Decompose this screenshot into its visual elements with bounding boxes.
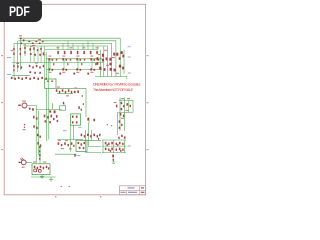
PDF badge bbox=[0, 0, 42, 22]
resistor R28 bbox=[37, 78, 39, 80]
resistor R25 bbox=[25, 77, 27, 79]
wire V- bus bbox=[18, 41, 116, 77]
transistor Q5 bbox=[87, 73, 89, 75]
resistor R98 bbox=[57, 120, 58, 122]
relay K2 coil bbox=[60, 106, 66, 110]
resistor R49 bbox=[66, 69, 68, 71]
wire rail M1 bbox=[46, 88, 48, 141]
transistor Q7 bbox=[77, 90, 79, 93]
resistor R146c bbox=[110, 150, 111, 152]
wire br v3 bbox=[123, 140, 125, 153]
resistor R61 bbox=[113, 53, 115, 56]
resistor R99 bbox=[63, 102, 64, 104]
capacitor C8 bbox=[29, 71, 31, 73]
resistor R8 bbox=[20, 48, 21, 51]
resistor R131 bbox=[116, 143, 117, 145]
resistor R95 bbox=[45, 120, 47, 122]
wire mid rail bbox=[12, 62, 104, 64]
resistor R137 bbox=[116, 148, 117, 150]
diode D6 bbox=[84, 142, 86, 144]
resistor R126 bbox=[124, 136, 125, 139]
wire gnd row bbox=[55, 153, 77, 155]
diode D2 bbox=[30, 53, 32, 55]
resistor R146 bbox=[40, 166, 42, 168]
rectifier U2 bbox=[76, 140, 87, 151]
wire row join bbox=[45, 52, 47, 79]
capacitor C3 bbox=[20, 53, 21, 55]
resistor R14 bbox=[13, 65, 14, 68]
resistor R109 bbox=[123, 105, 124, 107]
resistor R103 bbox=[76, 121, 78, 123]
title rev bbox=[141, 187, 144, 188]
capacitor C18 bbox=[113, 159, 114, 161]
resistor R2 bbox=[32, 43, 34, 45]
resistor R40 bbox=[62, 58, 64, 60]
resistor R69 bbox=[114, 69, 116, 72]
resistor R11 bbox=[37, 49, 39, 51]
resistor R118 bbox=[116, 105, 117, 108]
ground GND3 bbox=[49, 177, 53, 181]
capacitor C14 bbox=[24, 124, 25, 125]
capacitor C12 bbox=[84, 59, 85, 61]
junction dot E bbox=[69, 186, 70, 187]
transistor Q13 bbox=[90, 135, 91, 137]
resistor R53 bbox=[94, 69, 96, 71]
resistor R68 bbox=[110, 68, 112, 71]
resistor R121 bbox=[64, 142, 66, 145]
resistor R41 bbox=[66, 59, 68, 61]
wire mr rail 2 bbox=[123, 98, 125, 132]
resistor R88 bbox=[39, 136, 40, 138]
resistor R80 bbox=[83, 103, 84, 105]
resistor R38 bbox=[48, 58, 50, 60]
wire bl bottom bbox=[31, 176, 56, 178]
diode D8 bbox=[83, 147, 85, 149]
svg-text:The Adventure NOT FOR SALE: The Adventure NOT FOR SALE bbox=[93, 88, 134, 92]
wire bl rail bbox=[39, 145, 41, 164]
resistor R138 bbox=[119, 148, 121, 151]
net LS label bbox=[127, 145, 130, 148]
resistor R74 bbox=[59, 91, 60, 93]
resistor R29 bbox=[41, 77, 43, 79]
transistor Q6 bbox=[74, 91, 76, 93]
net AC label bbox=[76, 154, 80, 157]
wire rail L1 bbox=[35, 109, 37, 163]
capacitor C4 bbox=[24, 51, 25, 53]
relay K1 bbox=[45, 79, 57, 88]
resistor R101 bbox=[76, 116, 78, 118]
resistor R13 bbox=[43, 52, 44, 54]
resistor R111 bbox=[127, 103, 129, 106]
transistor Q8 bbox=[87, 118, 89, 121]
title date bbox=[121, 192, 126, 193]
resistor R4 bbox=[39, 43, 41, 45]
wire corner drop bbox=[88, 117, 90, 123]
capacitor C29 bbox=[95, 63, 96, 65]
resistor R27 bbox=[33, 77, 35, 79]
wire br top bbox=[102, 139, 126, 141]
wire br mid bbox=[102, 145, 126, 147]
resistor R21 bbox=[11, 77, 13, 79]
value labels bottom-left bbox=[33, 161, 36, 164]
resistor R45 bbox=[94, 59, 96, 61]
resistor R50 bbox=[76, 68, 78, 70]
wire out row bbox=[80, 139, 101, 141]
resistor R147 bbox=[43, 167, 44, 170]
wire X1 out bbox=[27, 106, 61, 110]
resistor R3 bbox=[35, 41, 37, 42]
resistor R86 bbox=[36, 127, 37, 129]
resistor R54 bbox=[96, 57, 98, 60]
capacitor C28 bbox=[81, 63, 82, 65]
resistor R85 bbox=[33, 125, 35, 127]
junction dot A bbox=[107, 124, 108, 125]
junction dot B bbox=[111, 125, 112, 126]
resistor R20 bbox=[39, 72, 41, 74]
resistor R145 bbox=[37, 167, 38, 170]
resistor R84 bbox=[36, 117, 37, 119]
junction dot D bbox=[61, 186, 62, 187]
resistor R7 bbox=[13, 52, 14, 55]
polarized cap C16 bbox=[74, 154, 75, 157]
wire row B bbox=[46, 58, 102, 60]
resistor R22 bbox=[14, 78, 16, 80]
resistor R124 bbox=[73, 145, 74, 147]
resistor R71 bbox=[122, 67, 124, 70]
wire mr mid bbox=[118, 112, 133, 135]
resistor R46 bbox=[48, 68, 50, 70]
title sheet bbox=[128, 192, 137, 193]
resistor R106 bbox=[78, 106, 80, 109]
capacitor C1 bbox=[20, 38, 22, 40]
resistor R16 bbox=[17, 65, 18, 67]
resistor R15 bbox=[13, 69, 14, 71]
resistor R129 bbox=[108, 143, 109, 145]
net OUT label bbox=[128, 72, 131, 75]
wire cluster verticals bbox=[25, 46, 44, 79]
resistor R141 bbox=[39, 150, 40, 152]
value labels right cluster bbox=[104, 49, 107, 52]
resistor R48 bbox=[62, 68, 64, 70]
capacitor C5 bbox=[34, 54, 36, 56]
resistor R56 bbox=[102, 54, 104, 57]
wire input rail bbox=[12, 75, 30, 77]
transistor Q17 bbox=[34, 169, 37, 172]
wire interrow drops bbox=[50, 59, 92, 70]
resistor R146b bbox=[117, 144, 118, 146]
resistor R130 bbox=[111, 142, 113, 145]
net VP label bbox=[128, 45, 131, 48]
wire GND bus bbox=[14, 43, 112, 79]
resistor R144 bbox=[34, 166, 36, 168]
resistor R17 bbox=[32, 66, 33, 68]
resistor R113 bbox=[120, 113, 122, 115]
resistor R75 bbox=[62, 89, 64, 92]
resistor R107 bbox=[81, 109, 82, 111]
wire br v1 bbox=[102, 140, 104, 153]
resistor R91 bbox=[44, 115, 46, 118]
resistor R30 bbox=[45, 78, 47, 80]
resistor R94 bbox=[53, 118, 54, 120]
net VREF label bbox=[78, 126, 81, 129]
resistor R60 bbox=[109, 63, 111, 66]
resistor R142 bbox=[39, 154, 41, 157]
resistor R72 bbox=[47, 81, 49, 82]
capacitor C6 bbox=[39, 54, 41, 56]
resistor R135 bbox=[108, 148, 109, 150]
wire LED out bbox=[26, 161, 32, 163]
wire bias bus bbox=[24, 46, 107, 77]
resistor R100 bbox=[72, 116, 74, 118]
wire mr rail 1 bbox=[119, 98, 121, 132]
transistor Q3 bbox=[59, 73, 61, 75]
resistor R87 bbox=[37, 134, 39, 137]
svg-text:DREAMBO by : Mr.Virinho Gonzal: DREAMBO by : Mr.Virinho Gonzalez bbox=[93, 82, 141, 86]
resistor R89 bbox=[37, 142, 39, 144]
wire rail C bbox=[123, 50, 125, 74]
resistor R18 bbox=[36, 65, 38, 67]
capacitor C7 bbox=[21, 66, 22, 68]
resistor R51 bbox=[80, 69, 82, 71]
resistor R77 bbox=[68, 89, 70, 92]
resistor R63 bbox=[119, 57, 121, 60]
wire K2 stub bbox=[63, 103, 65, 106]
capacitor C15 bbox=[24, 127, 25, 128]
wire nest 2 bbox=[89, 123, 101, 147]
capacitor C11 bbox=[70, 59, 71, 61]
resistor R10 bbox=[33, 47, 34, 50]
net IN label bbox=[7, 56, 11, 59]
resistor R64 bbox=[121, 51, 123, 54]
resistor R34 bbox=[77, 51, 79, 54]
resistor R133 bbox=[122, 143, 123, 145]
resistor R43 bbox=[80, 59, 82, 61]
resistor R115 bbox=[119, 120, 121, 123]
value labels center cluster bbox=[57, 86, 60, 89]
resistor R143 bbox=[39, 158, 40, 160]
title doc name bbox=[128, 187, 135, 188]
resistor R127 bbox=[118, 137, 119, 139]
capacitor C17 bbox=[112, 155, 114, 158]
wire left tap 1 bbox=[17, 41, 19, 72]
resistor R112 bbox=[130, 105, 131, 107]
capacitor C2 bbox=[23, 39, 25, 41]
resistor R35 bbox=[83, 51, 85, 54]
resistor R36 bbox=[90, 51, 92, 54]
capacitor C10 bbox=[56, 59, 57, 61]
resistor R42 bbox=[76, 58, 78, 60]
resistor R31 bbox=[57, 51, 59, 54]
wire U2 feeds bbox=[70, 125, 73, 151]
resistor R23 bbox=[18, 77, 20, 79]
resistor R81 bbox=[29, 108, 31, 110]
resistor R76 bbox=[65, 91, 66, 93]
wire rail M2 bbox=[48, 60, 50, 139]
resistor R79 bbox=[82, 95, 83, 97]
wire rail B bbox=[99, 50, 101, 77]
wire row C bbox=[46, 69, 102, 71]
resistor R47 bbox=[52, 69, 54, 71]
resistor R78 bbox=[71, 91, 72, 93]
resistor R110 bbox=[121, 108, 123, 110]
resistor R132 bbox=[119, 142, 121, 145]
resistor R98 bbox=[54, 110, 56, 113]
wire nest 3 bbox=[90, 130, 92, 140]
resistor R125 bbox=[121, 135, 123, 137]
resistor R57 bbox=[102, 59, 104, 62]
resistor R9 bbox=[24, 47, 25, 49]
wire stub c1 bbox=[52, 103, 54, 109]
transistor Q15 bbox=[97, 135, 98, 137]
capacitor C26 bbox=[53, 63, 54, 65]
wire ct link bbox=[57, 93, 73, 95]
ground GND1 bbox=[112, 161, 116, 164]
wire row A bbox=[45, 49, 98, 51]
resistor R24 bbox=[21, 78, 23, 80]
resistor R59 bbox=[109, 58, 111, 61]
resistor R146a bbox=[106, 144, 107, 146]
resistor R139 bbox=[122, 148, 123, 150]
capacitor C27 bbox=[67, 63, 68, 65]
wire rail L2 bbox=[38, 111, 40, 155]
wire mr rail 4 bbox=[132, 100, 134, 112]
resistor R65 bbox=[122, 55, 124, 58]
capacitor C13 bbox=[98, 59, 99, 61]
opamp U1 bbox=[71, 114, 81, 125]
resistor R90 bbox=[40, 144, 41, 146]
resistor R148 bbox=[46, 166, 48, 168]
resistor R128 bbox=[105, 142, 107, 145]
amp block box bbox=[32, 164, 50, 175]
resistor R102 bbox=[72, 121, 74, 123]
resistor R146d bbox=[120, 150, 121, 152]
wire left tap 2 bbox=[20, 38, 22, 70]
resistor R55 bbox=[96, 62, 98, 65]
diode D4 bbox=[78, 142, 80, 144]
transistor Q9 bbox=[93, 119, 95, 122]
resistor R149 bbox=[48, 167, 49, 169]
wire bus drops bbox=[58, 41, 98, 50]
transistor Q1 bbox=[29, 48, 31, 50]
resistor R62 bbox=[116, 53, 118, 56]
LED D9 bbox=[21, 160, 26, 165]
value labels lower row bbox=[58, 139, 61, 142]
net VM label bbox=[128, 56, 131, 59]
net OUT2 label bbox=[63, 129, 67, 132]
wire br bot bbox=[102, 152, 126, 154]
resistor R83 bbox=[33, 116, 34, 119]
resistor R97 bbox=[49, 110, 51, 112]
transistor Q4 bbox=[73, 73, 75, 75]
resistor R58 bbox=[106, 57, 108, 60]
resistor R123 bbox=[71, 142, 73, 145]
resistor R73 bbox=[56, 89, 58, 92]
transistor Q10 bbox=[81, 134, 83, 137]
resistor R108 bbox=[121, 102, 123, 105]
transistor Q12 bbox=[87, 134, 89, 137]
value labels mid-right block bbox=[121, 97, 124, 100]
resistor R97 bbox=[56, 115, 58, 118]
wire V+ bus bbox=[18, 38, 120, 76]
resistor R6 bbox=[13, 48, 14, 51]
resistor R66 bbox=[99, 67, 101, 70]
resistor R114 bbox=[123, 115, 125, 118]
wire drv row bbox=[57, 138, 83, 140]
net FB label bbox=[7, 73, 11, 76]
diode D1 bbox=[21, 42, 22, 44]
resistor R67 bbox=[103, 68, 105, 71]
resistor R70 bbox=[119, 65, 121, 68]
resistor R93 bbox=[51, 115, 53, 118]
capacitor C9 bbox=[34, 72, 36, 74]
title block frame bbox=[120, 186, 146, 195]
resistor R117 bbox=[119, 127, 121, 129]
resistor R92 bbox=[47, 116, 48, 118]
resistor R32 bbox=[64, 51, 66, 54]
wire rail A bbox=[103, 47, 105, 77]
wire nest 1 bbox=[86, 130, 101, 153]
resistor R33 bbox=[70, 51, 72, 54]
transistor Q16 bbox=[99, 134, 100, 136]
diode D5 bbox=[81, 143, 83, 145]
wire output bus bbox=[95, 77, 127, 79]
resistor R136 bbox=[111, 148, 113, 151]
resistor R37 bbox=[96, 51, 98, 54]
transistor Q14 bbox=[93, 134, 95, 137]
wire mr rail 3 bbox=[128, 100, 130, 112]
connector X1 bbox=[22, 103, 27, 108]
resistor R44 bbox=[90, 58, 92, 60]
resistor R26 bbox=[29, 78, 31, 80]
wire mr top bbox=[119, 99, 133, 101]
resistor R96 bbox=[49, 121, 51, 123]
resistor R134 bbox=[105, 148, 107, 151]
junction dot C bbox=[98, 138, 99, 140]
diode D7 bbox=[79, 147, 81, 149]
wire br v2 bbox=[113, 140, 115, 153]
resistor R116 bbox=[121, 124, 122, 126]
resistor R82 bbox=[32, 108, 34, 111]
resistor R5 bbox=[42, 41, 44, 43]
resistor R1 bbox=[28, 41, 30, 42]
transistor Q11 bbox=[84, 135, 85, 137]
resistor R12 bbox=[40, 48, 41, 50]
resistor R122 bbox=[67, 144, 68, 146]
resistor R39 bbox=[52, 59, 54, 61]
transistor Q18 bbox=[38, 169, 41, 172]
resistor R120 bbox=[61, 144, 62, 146]
ground GND2 bbox=[40, 175, 44, 178]
resistor R19 bbox=[39, 66, 40, 68]
diode D3 bbox=[43, 65, 44, 67]
resistor R140 bbox=[39, 146, 41, 149]
resistor R52 bbox=[90, 68, 92, 70]
wire feed bbox=[56, 88, 86, 117]
transistor Q2 bbox=[29, 65, 31, 67]
label X1 bbox=[22, 100, 26, 103]
resistor R119 bbox=[58, 142, 60, 145]
